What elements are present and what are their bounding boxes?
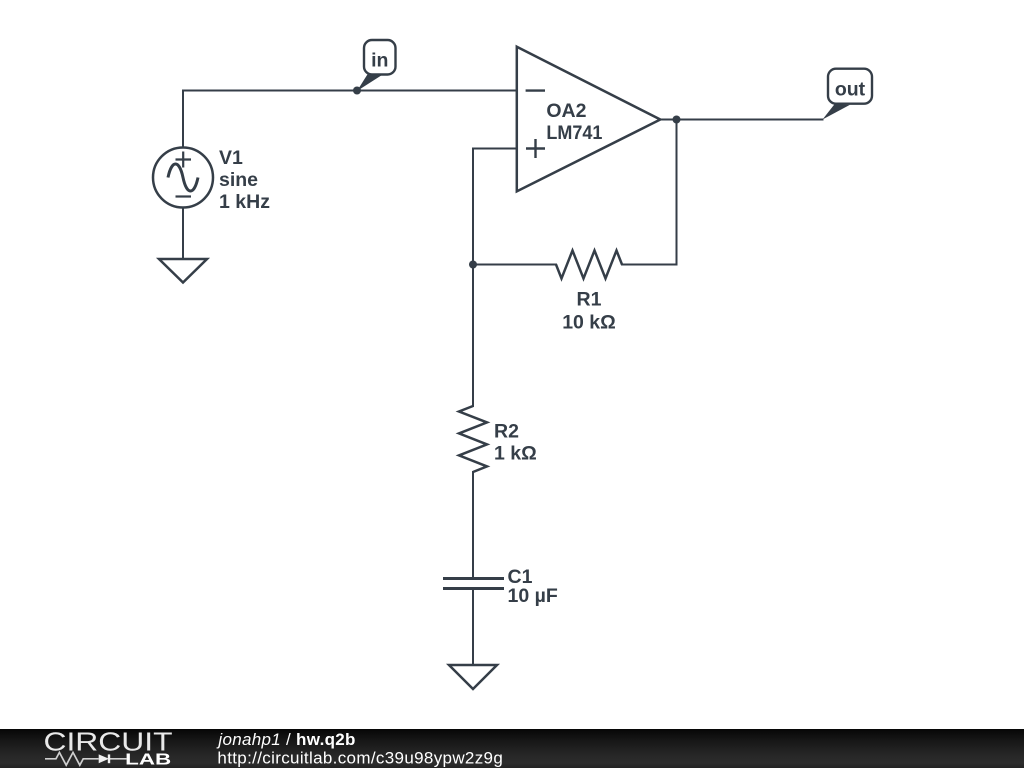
label OA2 LM741 [546,100,602,144]
ground (below V1) [159,259,207,283]
op-amp OA2 [517,47,661,192]
wire R2 top lead [472,265,474,407]
wire V1 top to op-amp minus input [183,91,517,148]
wire feedback left lead [473,264,556,266]
svg-text:http://circuitlab.com/c39u98yp: http://circuitlab.com/c39u98ypw2z9g [217,748,502,767]
voltage source V1 [153,148,213,208]
wire R2 bottom to capacitor [472,472,474,579]
label C1 10 µF [508,566,558,607]
svg-text:in: in [371,50,388,72]
svg-text:R2: R2 [494,421,519,443]
ground (below C1) [449,665,497,689]
wire output [660,119,823,121]
capacitor C1 [443,579,504,589]
node out [823,69,873,120]
svg-text:out: out [835,79,866,101]
svg-text:OA2: OA2 [546,100,586,122]
svg-text:V1: V1 [219,147,243,169]
svg-text:sine: sine [219,169,258,191]
label R2 1 kΩ [494,421,537,465]
svg-text:10 kΩ: 10 kΩ [562,312,616,334]
svg-text:10 µF: 10 µF [508,585,558,607]
label V1 sine 1 kHz [219,147,270,213]
svg-text:1 kΩ: 1 kΩ [494,443,537,465]
wire capacitor to ground [472,589,474,666]
node feedback junction [469,261,477,269]
svg-text:jonahp1 / hw.q2b: jonahp1 / hw.q2b [216,730,355,749]
resistor R1 [556,251,622,279]
footer bar [0,729,1024,768]
node in [353,40,396,95]
svg-text:1 kHz: 1 kHz [219,191,270,213]
label R1 10 kΩ [562,289,616,334]
node out junction [673,116,681,124]
logo resistor-diode squiggle [45,752,127,765]
svg-text:LM741: LM741 [546,122,602,144]
wire op-amp plus input [473,149,517,265]
resistor R2 [459,406,487,472]
wire feedback right lead up to output [622,120,677,265]
svg-text:LAB: LAB [125,751,171,768]
svg-text:R1: R1 [577,289,602,311]
wire V1 bottom to ground [182,208,184,260]
